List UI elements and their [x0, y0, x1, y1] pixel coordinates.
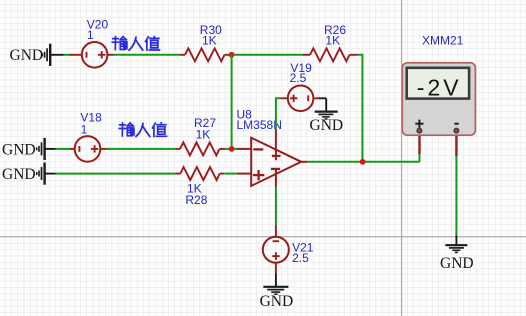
multimeter XMM21 body	[402, 63, 475, 135]
svg-text:R28: R28	[185, 193, 207, 207]
wire vertical top junction to middle junction	[231, 55, 233, 149]
resistor R26	[303, 48, 358, 61]
op-amp V+ supply plus mark	[272, 155, 281, 157]
wire op-amp V- pin to V21	[275, 187, 277, 225]
wire GND3 to R28	[56, 173, 176, 175]
resistor R28	[176, 167, 225, 180]
meter - terminal mark	[454, 123, 458, 125]
op-amp negative supply pin	[275, 170, 277, 187]
op-amp output pin	[301, 161, 308, 163]
svg-text:1: 1	[81, 123, 88, 137]
resistor R30	[180, 48, 232, 61]
op-amp V- supply minus mark	[271, 168, 280, 170]
meter + terminal mark	[415, 120, 459, 128]
voltage source V20	[70, 42, 114, 68]
meter - terminal lead	[455, 131, 457, 156]
wire R27 to inverting input junction	[225, 148, 237, 150]
op-amp inverting input minus mark	[253, 148, 263, 150]
op-amp U8 pins and body	[237, 129, 308, 187]
ground symbol GND4 (for V19)	[315, 98, 338, 119]
wire R28 to non-inverting input	[224, 173, 237, 175]
ground symbol GND6 (bottom right)	[445, 235, 467, 252]
svg-text:GND: GND	[2, 166, 36, 183]
op-amp positive supply pin	[275, 129, 277, 160]
ground symbol GND3 (lower left)	[37, 163, 56, 185]
ground symbol GND2 (middle left)	[37, 138, 56, 160]
ground symbol GND5 (below V21)	[263, 273, 288, 294]
wire R26 to output node (corner + vertical)	[358, 55, 363, 162]
ground symbol GND1 (top left)	[42, 44, 63, 66]
svg-text:1K: 1K	[196, 128, 211, 142]
wire V20 to R30	[114, 54, 181, 56]
voltage source V18	[70, 136, 111, 162]
meter + terminal lead	[418, 131, 420, 154]
svg-text:1: 1	[87, 28, 94, 42]
svg-text:GND: GND	[310, 117, 344, 134]
meter - terminal	[454, 128, 459, 133]
sheet border horizontal line	[0, 236, 526, 238]
wire op-amp output to junction and meter	[308, 161, 420, 163]
wire GND2 to V18	[56, 148, 71, 150]
svg-text:GND: GND	[440, 255, 474, 272]
op-amp U8 triangle body	[251, 138, 301, 186]
voltage source V19	[280, 86, 319, 112]
wire meter - terminal to GND6	[455, 156, 457, 235]
svg-text:2.5: 2.5	[290, 71, 307, 85]
multimeter display	[407, 68, 469, 99]
svg-text:1K: 1K	[202, 33, 217, 47]
junction node (inverting input net)	[229, 146, 235, 152]
net label 输入值 (top row)	[112, 37, 159, 51]
voltage source V21	[263, 225, 289, 273]
svg-text:GND: GND	[2, 141, 36, 158]
resistor R27	[175, 142, 225, 155]
op-amp non-inverting input plus mark	[253, 174, 264, 176]
wire V18 to R27	[107, 148, 176, 150]
wire meter + terminal vertical	[419, 154, 421, 162]
svg-text:GND: GND	[260, 293, 294, 310]
junction node (output net)	[360, 159, 366, 165]
op-amp non-inverting input pin	[237, 173, 251, 175]
sheet border vertical line	[401, 0, 403, 316]
wire GND1 to V20	[64, 54, 70, 56]
wire junction to R26	[232, 54, 303, 56]
op-amp inverting input pin	[237, 148, 251, 150]
svg-text:1K: 1K	[325, 33, 340, 47]
svg-text:2.5: 2.5	[292, 251, 309, 265]
svg-text:-2V: -2V	[417, 75, 462, 101]
junction node (R30/R26/inverting input net)	[229, 52, 235, 58]
wire V19 to op-amp V+ pin	[276, 98, 280, 129]
svg-text:XMM21: XMM21	[422, 34, 464, 48]
svg-text:GND: GND	[10, 47, 44, 64]
meter + terminal	[417, 128, 422, 133]
net label 输入值 (middle row)	[119, 123, 166, 137]
